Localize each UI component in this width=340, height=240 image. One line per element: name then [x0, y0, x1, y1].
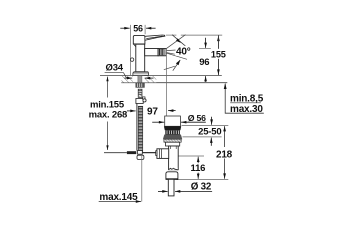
svg-text:218: 218 [216, 149, 233, 160]
dim 155 line [217, 35, 219, 75]
dim d34 underline and leader [105, 73, 127, 78]
min8,5 label [230, 94, 264, 115]
deck hatch left [122, 76, 133, 82]
dim 96 bottom arrow [205, 76, 207, 82]
40 deg leader upper [167, 49, 176, 52]
leader arrow to pull rod [127, 110, 136, 112]
40 deg lower short line [164, 66, 175, 70]
deck hole [133, 76, 144, 82]
deck top line [100, 75, 222, 77]
svg-text:155: 155 [211, 50, 226, 60]
faucet spout [145, 49, 158, 56]
rod to waste [142, 152, 162, 154]
svg-text:96: 96 [199, 57, 209, 68]
dim 96 label [199, 57, 209, 68]
dim 116 label [191, 163, 206, 174]
waste plug rim [164, 126, 181, 130]
pull rod vertical [136, 104, 138, 151]
aerator [158, 49, 166, 56]
dim max145 ext line [141, 156, 143, 202]
mounting nut [136, 83, 145, 88]
faucet cap [133, 35, 145, 44]
faucet lever [145, 35, 165, 40]
svg-text:Ø 32: Ø 32 [191, 181, 212, 192]
40 deg upper arc arrow [172, 35, 187, 48]
dim 25-50 label [198, 126, 221, 137]
svg-text:56: 56 [133, 23, 143, 33]
dim 96 ext line [199, 48, 211, 50]
dim d56 left arrow [152, 121, 164, 123]
waste knurl ring [165, 130, 180, 134]
flexible hose [138, 106, 142, 151]
waste skirt [163, 135, 182, 140]
dim 218 label [216, 149, 233, 160]
threaded tube below nut [138, 89, 142, 97]
waste body tube [169, 146, 179, 170]
40 deg lower arc arrow [173, 60, 181, 71]
svg-text:97: 97 [147, 106, 158, 117]
dim 97 label [147, 106, 158, 117]
dim min8,5 max30 leader [224, 83, 264, 113]
horizontal pop-up rod thin part [104, 152, 127, 154]
tailpipe [168, 179, 174, 196]
dim 97 right arrow [168, 110, 176, 112]
dim 155 label [211, 49, 226, 60]
pipe collar below break [166, 172, 178, 180]
40 deg upper phantom line [166, 35, 186, 50]
waste ext line C pipe end [177, 179, 229, 181]
svg-text:max.30: max.30 [230, 104, 263, 115]
dim d34 label [106, 63, 124, 74]
waste ext line B locknut [183, 136, 222, 138]
deck bottom line [121, 82, 227, 84]
faucet base [133, 72, 149, 76]
dim max145 label [99, 192, 138, 203]
40 deg label [176, 46, 191, 58]
dim d34 left arrow [125, 77, 133, 79]
faucet neck chamfer [133, 44, 145, 47]
shank through deck [138, 76, 142, 83]
hose end fitting [138, 151, 143, 155]
dim d34 right arrow [145, 77, 154, 79]
svg-text:116: 116 [191, 163, 206, 174]
dim 96 top arrow [205, 38, 207, 48]
waste lever housing [156, 149, 169, 159]
dim 56 arrows [120, 27, 155, 29]
svg-text:25-50: 25-50 [198, 126, 221, 137]
ext line aerator to waste [165, 56, 167, 116]
waste locknut [166, 142, 180, 146]
rod guide elbow [136, 97, 146, 104]
faucet side knob [130, 58, 133, 61]
deck hatch right [144, 76, 156, 82]
faucet body [136, 44, 145, 72]
dim 116 line [197, 157, 199, 179]
dim min155 max268 line top [107, 77, 109, 150]
dim 25-50 top arrow [211, 117, 213, 125]
dim d56 label [188, 113, 206, 123]
waste plug cylinder [165, 116, 181, 126]
dim d32 leader line [175, 190, 212, 192]
dim 56 label [133, 23, 143, 33]
dim max145 dim line [99, 201, 141, 203]
rod coupling [127, 151, 136, 154]
dim 56 ext line right [144, 25, 146, 34]
dim 218 line [224, 126, 226, 179]
dim 155 ext line from lever [166, 34, 222, 36]
svg-text:Ø 56: Ø 56 [188, 113, 206, 123]
hose nut [137, 155, 144, 159]
waste seat washer [164, 139, 181, 142]
dim 56 ext line left [130, 25, 132, 76]
waste ext line D rod level [178, 155, 205, 157]
dim min155 label [89, 100, 128, 121]
dim d32 left arrow [158, 190, 168, 192]
dim d56 leader with arrow [181, 121, 206, 123]
svg-text:40°: 40° [176, 46, 191, 57]
40 deg leader lower [167, 53, 175, 55]
svg-text:Ø34: Ø34 [106, 63, 124, 74]
dim d32 label [191, 181, 212, 192]
dim 25-50 bottom arrow [210, 138, 212, 146]
svg-text:max. 268: max. 268 [89, 109, 128, 120]
pipe break symbol [169, 168, 179, 170]
40 deg lower phantom line [166, 53, 188, 60]
waste ext line A flange seat [182, 124, 229, 126]
